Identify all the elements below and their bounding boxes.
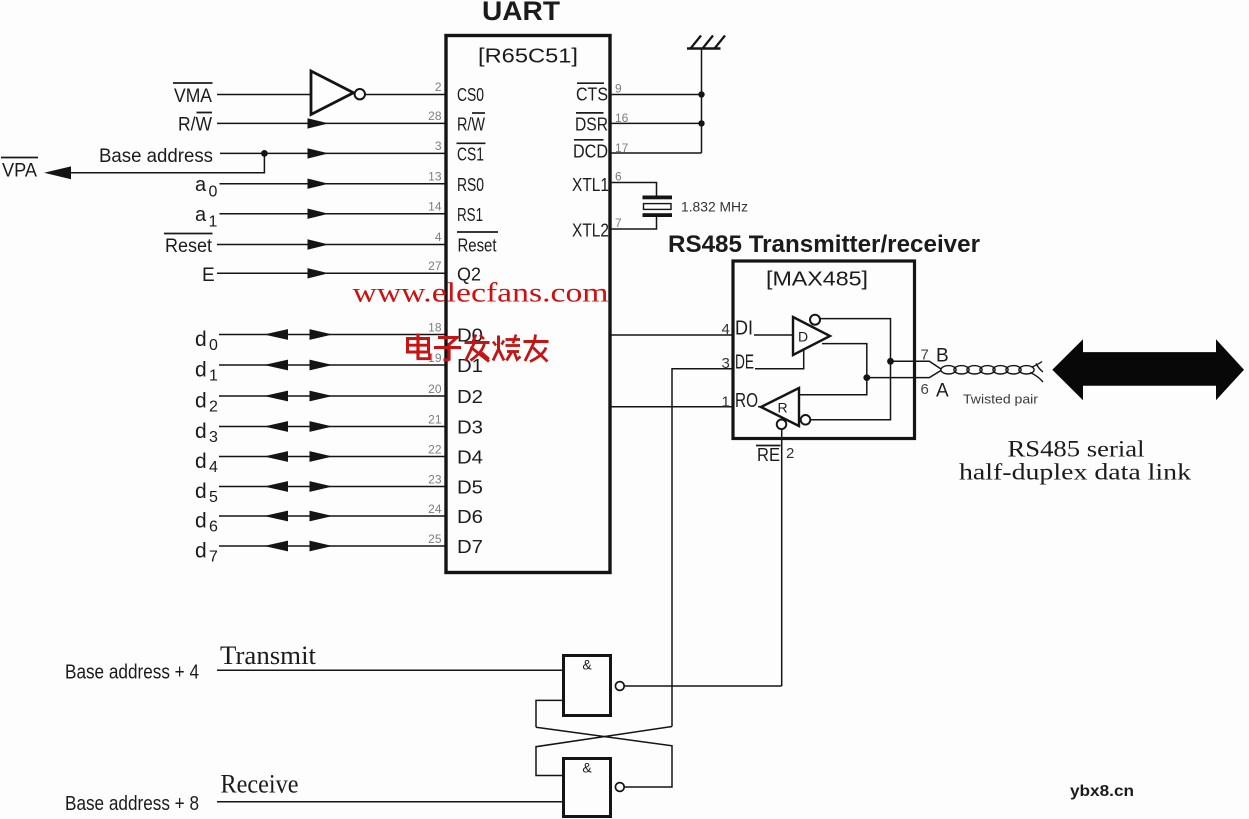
svg-text:7: 7 bbox=[209, 549, 218, 566]
svg-text:d: d bbox=[195, 509, 207, 532]
svg-text:d: d bbox=[195, 358, 207, 381]
inverter gate on VMA line bbox=[311, 71, 365, 115]
svg-text:B: B bbox=[936, 346, 949, 367]
wire crystal to XTL2 bbox=[610, 217, 657, 229]
junction CTS/ground rail bbox=[698, 91, 704, 97]
svg-text:D3: D3 bbox=[457, 418, 483, 438]
U1 pin 18 D0 bbox=[428, 320, 483, 345]
node R/W label bbox=[178, 113, 212, 136]
svg-text:3: 3 bbox=[209, 429, 218, 446]
svg-text:2: 2 bbox=[435, 80, 442, 94]
U2 pin 7 B bbox=[921, 346, 949, 367]
wire DSR to ground rail bbox=[610, 122, 702, 124]
svg-text:28: 28 bbox=[428, 109, 442, 123]
wire d1 to U1 bbox=[219, 364, 446, 366]
svg-text:RO: RO bbox=[735, 390, 758, 412]
svg-text:RS485 Transmitter/receiver: RS485 Transmitter/receiver bbox=[668, 231, 980, 258]
bidirectional arrows on d6 wire bbox=[264, 511, 333, 522]
char zi bbox=[434, 338, 461, 361]
U1 pin 13 RS0 bbox=[428, 169, 484, 195]
svg-text:Base address: Base address bbox=[99, 146, 213, 167]
svg-text:RS1: RS1 bbox=[457, 205, 483, 225]
svg-text:14: 14 bbox=[428, 199, 442, 213]
U1 pin 6 XTL1 bbox=[572, 170, 622, 196]
char dian bbox=[408, 334, 430, 359]
svg-text:DE: DE bbox=[735, 352, 754, 374]
svg-text:R/W: R/W bbox=[178, 115, 212, 136]
svg-text:24: 24 bbox=[428, 502, 442, 516]
svg-text:D: D bbox=[798, 329, 808, 345]
arrow to VPA bbox=[44, 166, 71, 179]
svg-text:7: 7 bbox=[615, 216, 622, 230]
wire Reset to U1 bbox=[217, 244, 446, 246]
U1 pin 2 CS0 bbox=[435, 80, 484, 105]
twisted pair cable bbox=[941, 362, 1043, 383]
U1 pin 27 Q2 bbox=[428, 259, 481, 285]
U1 pin 9 CTS bbox=[576, 82, 622, 105]
svg-text:RS0: RS0 bbox=[457, 175, 484, 195]
receiver R triangle bbox=[761, 388, 799, 426]
wire inverter to U1 pin 2 bbox=[365, 94, 446, 96]
arrow on E wire bbox=[308, 268, 329, 278]
svg-text:DI: DI bbox=[735, 318, 753, 340]
svg-text:[MAX485]: [MAX485] bbox=[766, 269, 868, 291]
svg-text:4: 4 bbox=[435, 230, 442, 244]
svg-text:RE: RE bbox=[757, 445, 780, 465]
U1 pin 4 Reset bbox=[435, 230, 498, 256]
wire G1 lower input feedback bbox=[536, 700, 562, 727]
svg-text:D6: D6 bbox=[457, 507, 483, 527]
svg-text:www.elecfans.com: www.elecfans.com bbox=[353, 278, 609, 308]
U1 pin 21 D3 bbox=[428, 412, 483, 437]
wire Base address to U1 bbox=[220, 152, 446, 154]
wire cross coupling DE to G2 input bbox=[536, 727, 672, 776]
U1 pin 20 D2 bbox=[428, 382, 483, 407]
svg-text:Receive: Receive bbox=[221, 770, 299, 799]
svg-text:9: 9 bbox=[615, 82, 622, 96]
svg-text:20: 20 bbox=[428, 382, 442, 396]
svg-text:R: R bbox=[778, 400, 788, 416]
wire d6 to U1 bbox=[219, 515, 446, 517]
wire d3 to U1 bbox=[219, 426, 446, 428]
svg-text:&: & bbox=[582, 657, 592, 673]
wire E to U1 bbox=[217, 272, 446, 274]
wire d7 to U1 bbox=[219, 545, 446, 547]
U1 pin 3 CS1 bbox=[435, 139, 486, 165]
svg-text:[R65C51]: [R65C51] bbox=[478, 46, 578, 68]
svg-text:Reset: Reset bbox=[458, 236, 497, 256]
svg-text:27: 27 bbox=[428, 259, 442, 273]
svg-text:DSR: DSR bbox=[575, 114, 608, 134]
svg-text:RS485 serial: RS485 serial bbox=[1008, 437, 1145, 462]
U2 pin 2 RE label bbox=[756, 445, 794, 465]
bidirectional arrows on d3 wire bbox=[264, 421, 333, 432]
svg-text:0: 0 bbox=[209, 337, 218, 354]
wire A line to pin 6 bbox=[867, 371, 941, 378]
svg-text:2: 2 bbox=[209, 399, 218, 416]
wire d2 to U1 bbox=[219, 395, 446, 397]
wire cross coupling G2 output to G1 input bbox=[536, 727, 672, 787]
wire U1 TxD to DI bbox=[610, 334, 732, 336]
U1 pin 22 D4 bbox=[428, 442, 483, 467]
svg-text:D7: D7 bbox=[457, 537, 483, 557]
svg-text:&: & bbox=[582, 760, 592, 776]
receiver inverting input bubble bbox=[801, 415, 811, 425]
svg-text:CS0: CS0 bbox=[457, 85, 484, 105]
U1 pin 19 D1 bbox=[428, 351, 483, 376]
char fa bbox=[465, 335, 490, 362]
svg-text:0: 0 bbox=[209, 184, 218, 201]
svg-text:3: 3 bbox=[722, 355, 730, 372]
svg-text:half-duplex data link: half-duplex data link bbox=[959, 460, 1192, 485]
svg-text:D1: D1 bbox=[457, 356, 483, 376]
U1 pin 28 R/W bbox=[428, 109, 485, 135]
U1 pin 7 XTL2 bbox=[572, 216, 622, 241]
U1 pin 24 D6 bbox=[428, 502, 483, 527]
U2 pin 4 DI bbox=[722, 318, 754, 340]
svg-text:18: 18 bbox=[428, 320, 442, 334]
node d5 label bbox=[195, 480, 218, 506]
wire CTS to ground rail bbox=[610, 94, 702, 96]
wire R/W to U1 bbox=[217, 122, 446, 124]
svg-text:D5: D5 bbox=[457, 478, 483, 498]
arrow on a0 wire bbox=[308, 179, 329, 189]
bidirectional arrows on d2 wire bbox=[264, 391, 333, 402]
svg-text:13: 13 bbox=[428, 169, 442, 183]
UART U1 box [R65C51] bbox=[446, 0, 610, 573]
driver inverted output bubble bbox=[810, 315, 820, 325]
svg-text:4: 4 bbox=[209, 459, 218, 476]
svg-text:XTL2: XTL2 bbox=[572, 221, 609, 241]
svg-text:VMA: VMA bbox=[174, 86, 212, 107]
svg-text:1: 1 bbox=[722, 394, 730, 411]
svg-text:d: d bbox=[195, 480, 207, 503]
svg-text:d: d bbox=[195, 389, 207, 412]
wire DE to driver enable bbox=[755, 350, 804, 369]
node d3 label bbox=[195, 420, 218, 446]
node VMA label bbox=[173, 83, 213, 107]
RS485 bus double arrow bbox=[1052, 339, 1244, 400]
node d4 label bbox=[195, 450, 218, 476]
bidirectional arrows on d7 wire bbox=[264, 541, 333, 552]
svg-text:DCD: DCD bbox=[573, 141, 608, 161]
U1 pin 23 D5 bbox=[428, 472, 483, 497]
wire RE from receiver enable down to latch bbox=[781, 429, 783, 686]
svg-text:VPA: VPA bbox=[2, 161, 37, 182]
svg-text:23: 23 bbox=[428, 472, 442, 486]
svg-text:Reset: Reset bbox=[165, 236, 213, 257]
svg-text:Base address + 4: Base address + 4 bbox=[65, 662, 199, 684]
svg-text:1: 1 bbox=[209, 368, 218, 385]
node VPA label bbox=[1, 158, 38, 182]
wire receiver output to RO bbox=[758, 406, 761, 408]
node a1 label bbox=[195, 204, 218, 231]
svg-text:21: 21 bbox=[428, 412, 442, 426]
U1 pin 16 DSR bbox=[575, 111, 629, 134]
wire VMA to inverter bbox=[217, 94, 311, 96]
bidirectional arrows on d4 wire bbox=[264, 451, 333, 462]
svg-text:6: 6 bbox=[615, 170, 622, 184]
svg-text:1: 1 bbox=[209, 214, 218, 231]
svg-text:6: 6 bbox=[921, 381, 929, 398]
svg-text:ybx8.cn: ybx8.cn bbox=[1070, 783, 1134, 800]
wire ground rail vertical bbox=[701, 49, 703, 154]
wire Transmit to NAND G1 bbox=[217, 669, 562, 671]
svg-text:d: d bbox=[195, 328, 207, 351]
svg-text:22: 22 bbox=[428, 442, 442, 456]
svg-text:1.832 MHz: 1.832 MHz bbox=[681, 199, 748, 215]
char shao bbox=[493, 335, 521, 361]
node d7 label bbox=[195, 539, 218, 565]
arrow on a1 wire bbox=[308, 209, 329, 219]
U2 pin 1 RO bbox=[722, 390, 759, 412]
junction DSR/ground rail bbox=[698, 120, 704, 126]
node a0 label bbox=[195, 174, 218, 201]
arrow on R/W wire bbox=[308, 118, 329, 128]
bidirectional arrows on d0 wire bbox=[264, 329, 333, 340]
U1 pin 25 D7 bbox=[428, 532, 483, 557]
svg-text:UART: UART bbox=[482, 0, 561, 26]
svg-text:4: 4 bbox=[722, 321, 730, 338]
node Reset label bbox=[164, 234, 213, 258]
wire DE to latch (vertical) bbox=[672, 369, 732, 727]
node d6 label bbox=[195, 509, 218, 535]
receiver enable bubble bbox=[777, 420, 787, 430]
svg-text:CS1: CS1 bbox=[457, 145, 484, 165]
wire driver output to A bbox=[799, 344, 867, 395]
wire d4 to U1 bbox=[219, 456, 446, 458]
wire RO to U1 RxD bbox=[610, 406, 732, 408]
wire driver inverted output to B bbox=[810, 319, 890, 420]
svg-text:d: d bbox=[195, 420, 207, 443]
driver D triangle bbox=[793, 317, 830, 355]
svg-text:D2: D2 bbox=[457, 387, 483, 407]
arrow on Base address wire bbox=[308, 148, 329, 158]
wire a0 to U1 bbox=[220, 183, 447, 185]
svg-text:3: 3 bbox=[435, 139, 442, 153]
svg-text:6: 6 bbox=[209, 519, 218, 536]
svg-text:A: A bbox=[936, 381, 949, 402]
svg-text:a: a bbox=[195, 174, 207, 196]
svg-text:E: E bbox=[202, 265, 215, 286]
crystal Y1 1.832 MHz bbox=[643, 196, 673, 218]
wire d5 to U1 bbox=[219, 486, 446, 488]
wire DCD to ground rail bbox=[610, 152, 702, 154]
svg-text:R/W: R/W bbox=[457, 115, 485, 135]
junction on Base address wire bbox=[261, 150, 268, 157]
bidirectional arrows on d5 wire bbox=[264, 481, 333, 492]
bidirectional arrows on d1 wire bbox=[264, 360, 333, 371]
node d0 label bbox=[195, 328, 218, 354]
svg-text:2: 2 bbox=[786, 445, 794, 462]
svg-text:D4: D4 bbox=[457, 448, 483, 468]
watermark chinese characters bbox=[408, 334, 549, 362]
junction A line bbox=[863, 374, 870, 381]
char you bbox=[524, 335, 549, 362]
wire B line to pin 7 bbox=[891, 361, 942, 369]
svg-text:25: 25 bbox=[428, 532, 442, 546]
U2 pin 3 DE bbox=[722, 352, 755, 374]
wire Receive to NAND G2 bbox=[217, 801, 562, 803]
U1 pin 17 DCD bbox=[573, 140, 629, 162]
svg-text:d: d bbox=[195, 450, 207, 473]
svg-text:7: 7 bbox=[921, 347, 929, 364]
arrow on Reset wire bbox=[308, 239, 329, 249]
svg-text:d: d bbox=[195, 539, 207, 562]
svg-text:Base address + 8: Base address + 8 bbox=[65, 793, 199, 815]
node d2 label bbox=[195, 389, 218, 415]
NAND gate G1 (transmit) bbox=[564, 656, 625, 716]
wire d0 to U1 bbox=[219, 334, 446, 336]
U2 pin 6 A bbox=[921, 381, 950, 402]
wire G1 output to RE bbox=[624, 685, 782, 687]
MAX485 U2 box bbox=[668, 231, 980, 439]
wire a1 to U1 bbox=[220, 213, 447, 215]
wire XTL1 to crystal bbox=[610, 183, 657, 196]
svg-text:a: a bbox=[195, 204, 207, 226]
svg-text:Twisted pair: Twisted pair bbox=[963, 392, 1039, 407]
svg-text:CTS: CTS bbox=[576, 84, 608, 104]
wire junction down to VPA branch bbox=[71, 153, 264, 172]
ground symbol bbox=[687, 36, 725, 49]
svg-text:Transmit: Transmit bbox=[220, 641, 317, 670]
svg-text:XTL1: XTL1 bbox=[572, 175, 609, 195]
junction B line bbox=[887, 358, 894, 365]
node d1 label bbox=[195, 358, 218, 384]
svg-text:5: 5 bbox=[209, 489, 218, 506]
wire DI to driver D bbox=[754, 334, 793, 336]
U1 pin 14 RS1 bbox=[428, 199, 483, 225]
NAND gate G2 (receive) bbox=[564, 759, 625, 817]
